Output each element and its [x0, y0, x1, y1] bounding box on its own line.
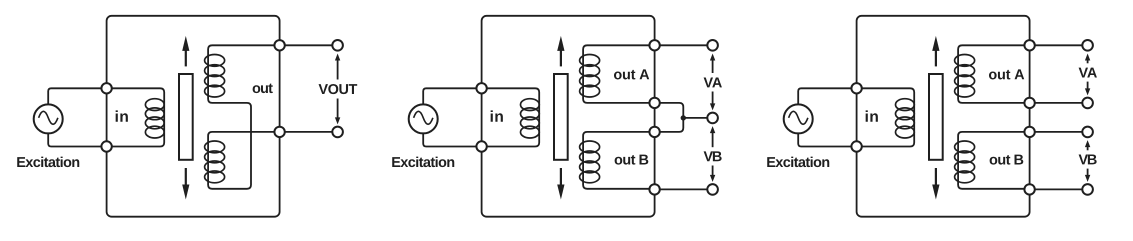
AC excitation source (circuit 3): [784, 104, 813, 133]
label in (circuit 2): [491, 110, 493, 121]
wire: secondary pin A+ to terminal (circuit 3): [1030, 44, 1088, 46]
primary pin top (circuit 1): [101, 83, 111, 93]
terminal center tap (circuit 2): [707, 113, 718, 124]
wire: secondary pin B- to terminal (circuit 3): [1030, 188, 1088, 190]
secondary pin B low (circuit 2): [649, 184, 659, 194]
wire: secondary pin A- to terminal (circuit 3): [1030, 102, 1088, 104]
core motion arrow up (circuit 2): [557, 36, 564, 51]
label Excitation (circuit 1): [17, 157, 25, 167]
secondary coil A loops (circuit 1): [205, 55, 225, 67]
secondary coil A winding (circuit 3): [958, 45, 1030, 103]
label VB with measurement arrows (circuit 3): [1085, 140, 1090, 147]
label VA with measurement arrows (circuit 3): [1085, 54, 1090, 61]
secondary pin B high (circuit 2): [649, 127, 659, 137]
primary pin top (circuit 3): [851, 83, 861, 93]
wire: secondary pin B to VOUT- terminal (circuit 1): [280, 131, 338, 133]
terminal VA+ (circuit 3): [1082, 40, 1093, 51]
movable core (circuit 3): [929, 74, 943, 160]
movable core (circuit 1): [179, 74, 193, 160]
label VB with measurement arrows (circuit 2): [710, 126, 715, 133]
label out (circuit 1): [253, 85, 261, 93]
terminal VB- (circuit 3): [1082, 184, 1093, 195]
core motion arrow up (circuit 3): [932, 36, 939, 51]
wire: coil B low pin to bottom terminal (circuit 2): [655, 188, 713, 190]
junction dot: external center connection (circuit 2): [681, 115, 686, 120]
secondary coil A winding (circuit 2): [583, 45, 655, 103]
secondary pin B high (circuit 3): [1024, 127, 1034, 137]
wire: secondary pin A+ to VA terminal (circuit 2): [655, 44, 713, 46]
wire: excitation source top to primary pin (circuit 2): [423, 88, 481, 104]
secondary coil B loops (circuit 1): [205, 141, 225, 153]
label Excitation (circuit 2): [392, 157, 400, 167]
VOUT- terminal (circuit 1): [332, 127, 343, 138]
wire: excitation source bottom to primary pin (circuit 1): [48, 133, 106, 146]
secondary coil B winding (circuit 3): [958, 132, 1030, 189]
terminal VA+ (circuit 2): [707, 40, 718, 51]
AC excitation source (circuit 1): [34, 104, 63, 133]
primary pin top (circuit 2): [476, 83, 486, 93]
label out A (circuit 2): [614, 72, 622, 80]
label Excitation (circuit 3): [767, 157, 775, 167]
wire: coil B high pin to external center junction (circuit 2): [655, 118, 684, 132]
primary coil "in" winding (circuit 1): [107, 88, 165, 146]
label out B (circuit 2): [615, 157, 623, 165]
wire: secondary pin B+ to terminal (circuit 3): [1030, 131, 1088, 133]
wire: excitation source bottom to primary pin (circuit 3): [798, 133, 856, 146]
primary pin bottom (circuit 2): [476, 141, 486, 151]
core motion arrow up (circuit 1): [182, 36, 189, 51]
LVDT body outline (circuit 3): [857, 16, 1030, 217]
wire: secondary pin A to VOUT+ terminal (circuit 1): [280, 44, 338, 46]
primary coil "in" winding (circuit 2): [482, 88, 540, 146]
wire: center junction to middle terminal (circuit 2): [683, 117, 712, 119]
primary pin bottom (circuit 3): [851, 141, 861, 151]
terminal VB- (circuit 2): [707, 184, 718, 195]
core motion arrow down (circuit 1): [182, 185, 189, 200]
secondary pin B low (circuit 3): [1024, 184, 1034, 194]
wire: excitation source bottom to primary pin (circuit 2): [423, 133, 481, 146]
wire: coil A low pin to external center junction (circuit 2): [655, 103, 684, 118]
label in (circuit 1): [116, 110, 118, 121]
secondary pin A (circuit 1): [274, 40, 284, 50]
secondary pin A low (circuit 3): [1024, 98, 1034, 108]
secondary pin A high (circuit 2): [649, 40, 659, 50]
movable core (circuit 2): [554, 74, 568, 160]
secondary coil B winding (circuit 2): [583, 132, 655, 189]
label in (circuit 3): [866, 110, 868, 121]
label VA with measurement arrows (circuit 2): [710, 54, 715, 61]
AC excitation source (circuit 2): [409, 104, 438, 133]
VOUT+ terminal (circuit 1): [332, 40, 343, 51]
terminal VB+ (circuit 3): [1082, 127, 1093, 138]
secondary pin A high (circuit 3): [1024, 40, 1034, 50]
terminal VA- (circuit 3): [1082, 98, 1093, 109]
core motion arrow down (circuit 2): [557, 185, 564, 200]
core motion arrow down (circuit 3): [932, 185, 939, 200]
wire: excitation source top to primary pin (circuit 1): [48, 88, 106, 104]
label out B (circuit 3): [990, 157, 998, 165]
secondary pin A low (circuit 2): [649, 98, 659, 108]
label out A (circuit 3): [989, 72, 997, 80]
LVDT body outline (circuit 2): [482, 16, 655, 217]
wire: excitation source top to primary pin (circuit 3): [798, 88, 856, 104]
primary pin bottom (circuit 1): [101, 141, 111, 151]
secondary pin B (circuit 1): [274, 127, 284, 137]
secondary windings in series-opposed connection (circuit 1): [208, 45, 280, 189]
LVDT body outline (circuit 1): [107, 16, 280, 217]
primary coil "in" winding (circuit 3): [857, 88, 915, 146]
label VOUT with measurement arrows (circuit 1): [335, 54, 340, 61]
